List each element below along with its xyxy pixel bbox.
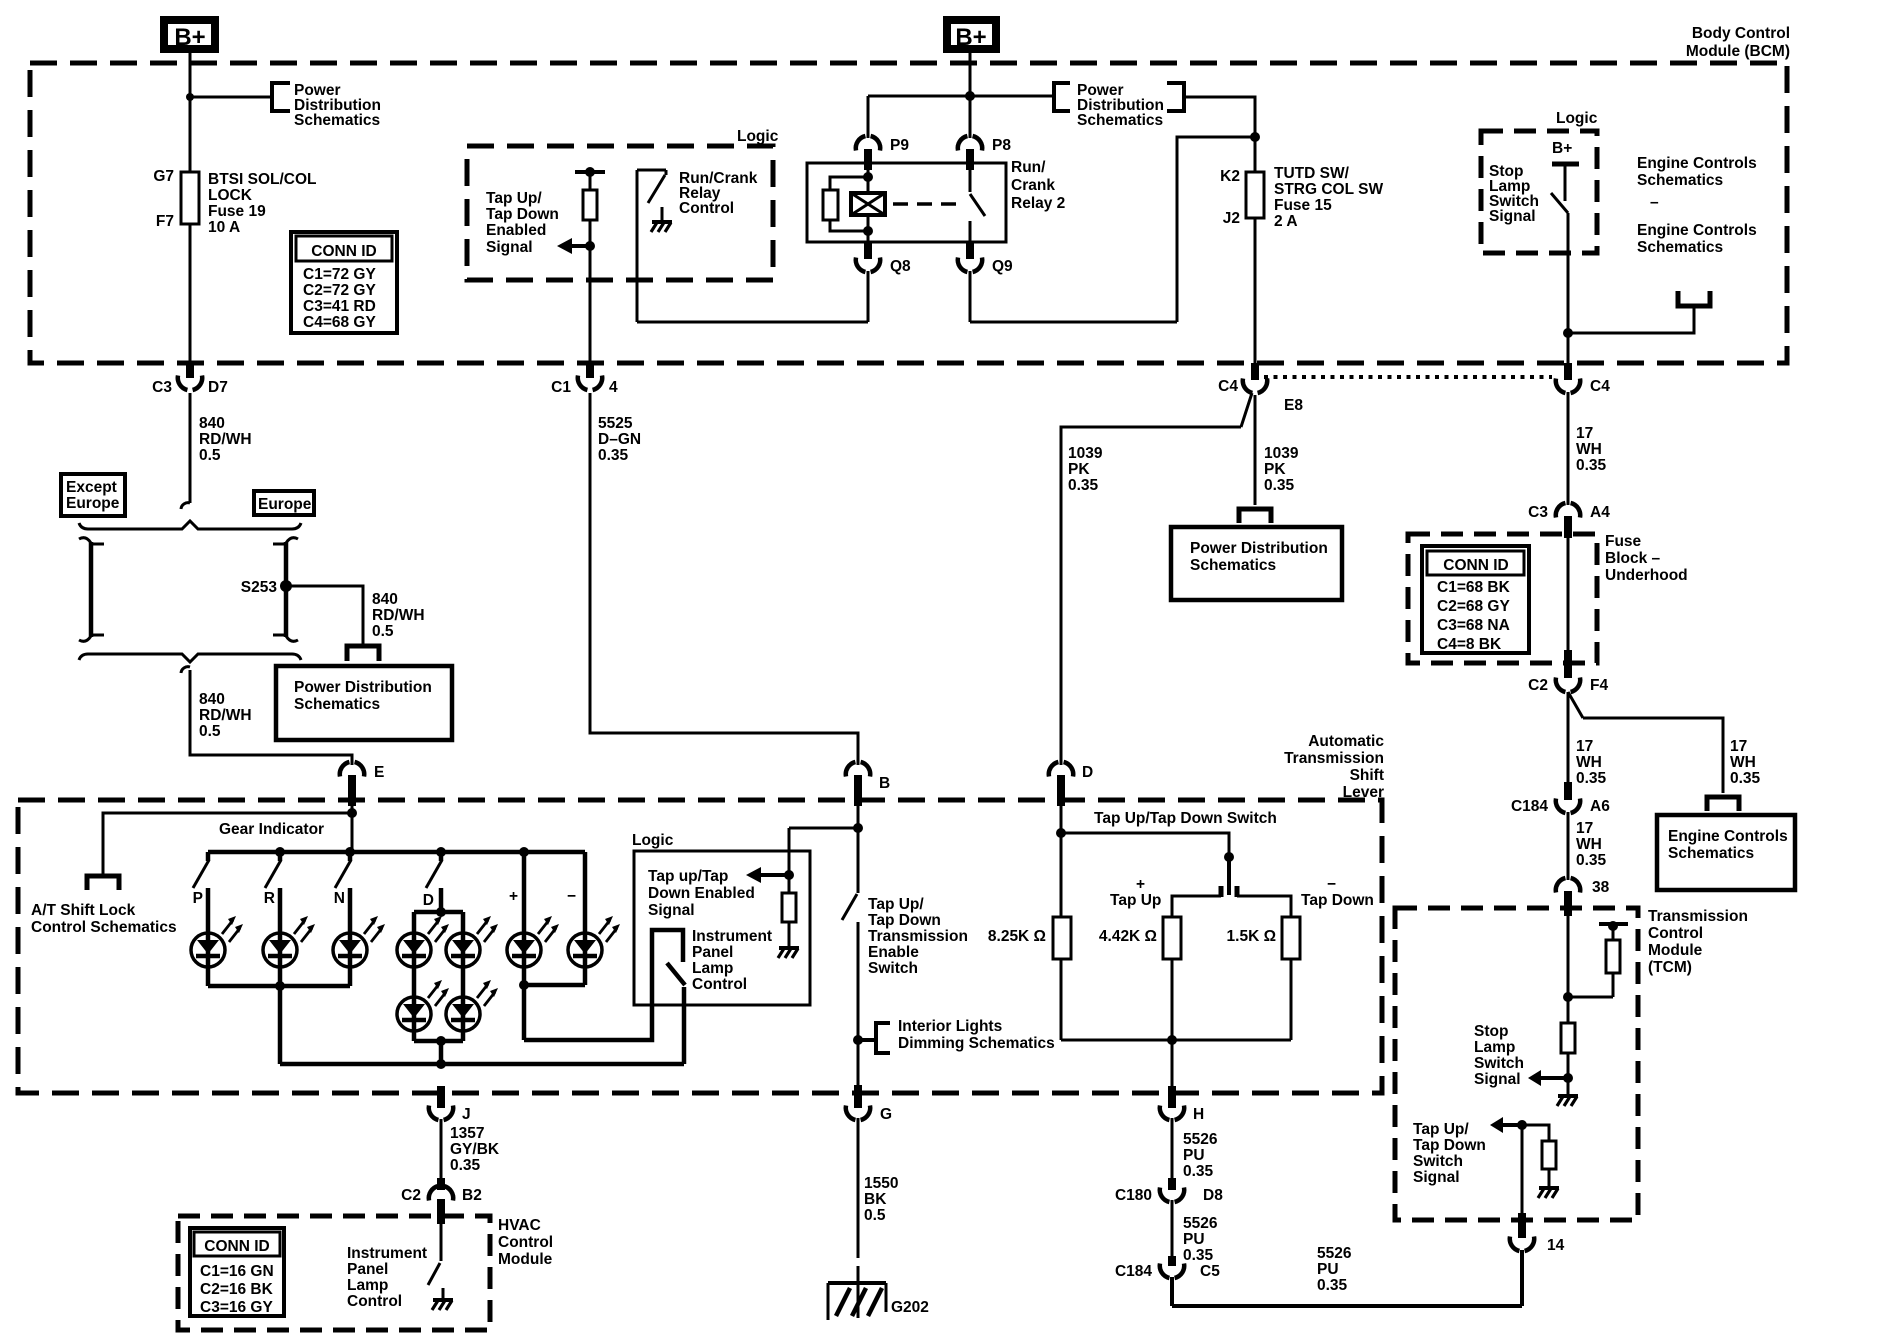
svg-text:Tap Up/: Tap Up/ (868, 896, 924, 913)
svg-text:Control: Control (692, 976, 747, 993)
svg-text:D8: D8 (1203, 1187, 1223, 1204)
svg-text:C3=68 NA: C3=68 NA (1437, 617, 1510, 634)
svg-text:Switch: Switch (1413, 1153, 1463, 1170)
svg-text:WH: WH (1730, 754, 1756, 771)
svg-text:G: G (880, 1106, 892, 1123)
svg-text:P: P (193, 890, 203, 907)
svg-text:Stop: Stop (1474, 1023, 1508, 1040)
svg-text:BTSI SOL/COL: BTSI SOL/COL (208, 171, 317, 188)
svg-text:C184: C184 (1115, 1263, 1152, 1280)
svg-text:C1=16 GN: C1=16 GN (200, 1263, 274, 1280)
svg-text:Signal: Signal (1474, 1071, 1521, 1088)
svg-text:17: 17 (1730, 738, 1747, 755)
svg-text:Automatic: Automatic (1308, 733, 1384, 750)
svg-text:Q8: Q8 (890, 258, 911, 275)
svg-text:E8: E8 (1284, 397, 1303, 414)
svg-text:Tap Up/: Tap Up/ (486, 190, 542, 207)
svg-text:C3=41 RD: C3=41 RD (303, 298, 376, 315)
svg-text:Tap Up/: Tap Up/ (1413, 1121, 1469, 1138)
svg-text:Switch: Switch (1474, 1055, 1524, 1072)
svg-text:8.25K Ω: 8.25K Ω (988, 928, 1046, 945)
svg-text:17: 17 (1576, 738, 1593, 755)
svg-text:Fuse: Fuse (1605, 533, 1642, 550)
svg-text:HVAC: HVAC (498, 1217, 541, 1234)
svg-text:WH: WH (1576, 441, 1602, 458)
svg-text:PK: PK (1068, 461, 1090, 478)
svg-text:Q9: Q9 (992, 258, 1013, 275)
svg-text:P8: P8 (992, 137, 1011, 154)
svg-text:Lamp: Lamp (1474, 1039, 1515, 1056)
svg-text:C1: C1 (551, 379, 571, 396)
svg-text:C2=16 BK: C2=16 BK (200, 1281, 274, 1298)
svg-text:Tap Down: Tap Down (1301, 892, 1374, 909)
svg-text:Gear Indicator: Gear Indicator (219, 821, 324, 838)
svg-text:Panel: Panel (347, 1261, 388, 1278)
svg-text:E: E (374, 764, 384, 781)
svg-text:Tap Up/Tap Down Switch: Tap Up/Tap Down Switch (1094, 810, 1277, 827)
svg-text:C3=16 GY: C3=16 GY (200, 1299, 273, 1316)
svg-text:0.35: 0.35 (1183, 1247, 1214, 1264)
svg-text:B+: B+ (1552, 140, 1572, 157)
svg-text:Logic: Logic (737, 128, 779, 145)
svg-text:CONN ID: CONN ID (1443, 557, 1508, 574)
svg-text:0.35: 0.35 (1264, 477, 1295, 494)
svg-text:Dimming Schematics: Dimming Schematics (898, 1035, 1055, 1052)
svg-text:Signal: Signal (1489, 208, 1536, 225)
svg-text:Europe: Europe (66, 495, 120, 512)
svg-text:R: R (264, 890, 275, 907)
svg-text:PU: PU (1183, 1147, 1205, 1164)
svg-text:Module (BCM): Module (BCM) (1686, 43, 1790, 60)
svg-text:(TCM): (TCM) (1648, 959, 1692, 976)
svg-text:1039: 1039 (1068, 445, 1103, 462)
svg-text:B2: B2 (462, 1187, 482, 1204)
svg-text:F7: F7 (156, 213, 174, 230)
svg-text:Schematics: Schematics (294, 112, 380, 129)
svg-text:17: 17 (1576, 820, 1593, 837)
svg-text:Tap Up: Tap Up (1110, 892, 1161, 909)
svg-text:Instrument: Instrument (692, 928, 772, 945)
svg-text:Block –: Block – (1605, 550, 1661, 567)
svg-text:Lever: Lever (1343, 784, 1384, 801)
svg-text:C2: C2 (1528, 677, 1548, 694)
svg-text:+: + (509, 888, 518, 905)
svg-text:5526: 5526 (1183, 1131, 1218, 1148)
svg-text:Signal: Signal (1413, 1169, 1460, 1186)
svg-text:Schematics: Schematics (1637, 172, 1723, 189)
svg-text:Schematics: Schematics (1637, 239, 1723, 256)
svg-text:J2: J2 (1223, 210, 1240, 227)
svg-text:PU: PU (1183, 1231, 1205, 1248)
svg-text:0.35: 0.35 (1576, 457, 1607, 474)
svg-text:G7: G7 (153, 168, 174, 185)
svg-text:RD/WH: RD/WH (372, 607, 425, 624)
svg-text:0.35: 0.35 (1068, 477, 1099, 494)
svg-text:Schematics: Schematics (1190, 557, 1276, 574)
svg-text:S253: S253 (241, 579, 278, 596)
svg-text:Schematics: Schematics (294, 696, 380, 713)
svg-text:Control: Control (1648, 925, 1703, 942)
svg-text:+: + (1136, 876, 1145, 893)
svg-text:A6: A6 (1590, 798, 1610, 815)
svg-text:Fuse 15: Fuse 15 (1274, 197, 1332, 214)
svg-text:C3: C3 (152, 379, 172, 396)
svg-text:−: − (567, 888, 576, 905)
svg-text:RD/WH: RD/WH (199, 707, 252, 724)
svg-text:CONN ID: CONN ID (311, 243, 376, 260)
svg-text:Down Enabled: Down Enabled (648, 885, 755, 902)
svg-text:LOCK: LOCK (208, 187, 253, 204)
svg-text:Control Schematics: Control Schematics (31, 919, 177, 936)
svg-text:5525: 5525 (598, 415, 633, 432)
svg-text:F4: F4 (1590, 677, 1608, 694)
svg-text:B: B (879, 775, 890, 792)
svg-text:1039: 1039 (1264, 445, 1299, 462)
svg-text:0.35: 0.35 (1183, 1163, 1214, 1180)
svg-text:0.35: 0.35 (598, 447, 629, 464)
svg-text:Control: Control (679, 200, 734, 217)
svg-text:0.5: 0.5 (199, 723, 221, 740)
svg-text:C3: C3 (1528, 504, 1548, 521)
svg-text:K2: K2 (1220, 168, 1240, 185)
svg-text:BK: BK (864, 1191, 887, 1208)
svg-text:Power Distribution: Power Distribution (1190, 540, 1328, 557)
svg-text:Instrument: Instrument (347, 1245, 427, 1262)
svg-text:Enabled: Enabled (486, 222, 546, 239)
svg-text:Engine Controls: Engine Controls (1668, 828, 1788, 845)
svg-text:Signal: Signal (486, 239, 533, 256)
svg-text:N: N (334, 890, 345, 907)
svg-text:5526: 5526 (1183, 1215, 1218, 1232)
svg-text:D7: D7 (208, 379, 228, 396)
svg-text:H: H (1193, 1106, 1204, 1123)
svg-text:C4: C4 (1218, 378, 1238, 395)
svg-text:Control: Control (498, 1234, 553, 1251)
svg-text:840: 840 (199, 691, 225, 708)
svg-text:Interior Lights: Interior Lights (898, 1018, 1002, 1035)
svg-text:Panel: Panel (692, 944, 733, 961)
svg-text:WH: WH (1576, 836, 1602, 853)
svg-text:1550: 1550 (864, 1175, 898, 1192)
svg-text:4.42K Ω: 4.42K Ω (1099, 928, 1157, 945)
svg-text:C180: C180 (1115, 1187, 1152, 1204)
svg-text:A4: A4 (1590, 504, 1610, 521)
svg-text:J: J (462, 1106, 471, 1123)
svg-text:Power Distribution: Power Distribution (294, 679, 432, 696)
svg-text:B+: B+ (174, 24, 205, 51)
svg-text:A/T Shift Lock: A/T Shift Lock (31, 902, 136, 919)
svg-text:Tap up/Tap: Tap up/Tap (648, 868, 728, 885)
svg-text:0.5: 0.5 (199, 447, 221, 464)
svg-text:C2: C2 (401, 1187, 421, 1204)
svg-text:GY/BK: GY/BK (450, 1141, 500, 1158)
svg-text:2 A: 2 A (1274, 213, 1298, 230)
svg-text:Control: Control (347, 1293, 402, 1310)
svg-text:Schematics: Schematics (1077, 112, 1163, 129)
svg-text:Fuse 19: Fuse 19 (208, 203, 266, 220)
svg-text:Engine Controls: Engine Controls (1637, 222, 1757, 239)
svg-text:Module: Module (498, 1251, 553, 1268)
svg-text:TUTD SW/: TUTD SW/ (1274, 165, 1350, 182)
svg-text:G202: G202 (891, 1299, 929, 1316)
svg-text:RD/WH: RD/WH (199, 431, 252, 448)
svg-text:C184: C184 (1511, 798, 1548, 815)
svg-text:5526: 5526 (1317, 1245, 1352, 1262)
svg-text:Crank: Crank (1011, 177, 1055, 194)
svg-text:10 A: 10 A (208, 219, 240, 236)
svg-text:1.5K Ω: 1.5K Ω (1227, 928, 1276, 945)
svg-text:C5: C5 (1200, 1263, 1220, 1280)
svg-text:Shift: Shift (1350, 767, 1384, 784)
svg-text:Transmission: Transmission (1648, 908, 1748, 925)
svg-text:0.35: 0.35 (450, 1157, 481, 1174)
svg-text:C2=68 GY: C2=68 GY (1437, 598, 1510, 615)
svg-text:0.35: 0.35 (1730, 770, 1761, 787)
svg-text:Except: Except (66, 479, 117, 496)
svg-text:1357: 1357 (450, 1125, 484, 1142)
svg-text:D: D (1082, 764, 1093, 781)
svg-text:Europe: Europe (258, 496, 312, 513)
svg-text:C4=8 BK: C4=8 BK (1437, 636, 1502, 653)
svg-text:0.5: 0.5 (864, 1207, 886, 1224)
svg-text:Tap Down: Tap Down (868, 912, 941, 929)
svg-text:Transmission: Transmission (1284, 750, 1384, 767)
svg-text:0.35: 0.35 (1317, 1277, 1348, 1294)
svg-text:Lamp: Lamp (347, 1277, 388, 1294)
svg-text:C1=72 GY: C1=72 GY (303, 266, 376, 283)
svg-text:0.5: 0.5 (372, 623, 394, 640)
svg-text:Relay 2: Relay 2 (1011, 195, 1065, 212)
svg-text:840: 840 (199, 415, 225, 432)
svg-text:38: 38 (1592, 879, 1610, 896)
svg-text:Switch: Switch (868, 960, 918, 977)
svg-text:0.35: 0.35 (1576, 770, 1607, 787)
svg-text:Logic: Logic (1556, 110, 1598, 127)
svg-text:Engine Controls: Engine Controls (1637, 155, 1757, 172)
svg-text:0.35: 0.35 (1576, 852, 1607, 869)
svg-text:PU: PU (1317, 1261, 1339, 1278)
svg-text:D–GN: D–GN (598, 431, 641, 448)
svg-text:Tap Down: Tap Down (1413, 1137, 1486, 1154)
svg-text:Logic: Logic (632, 832, 674, 849)
svg-text:PK: PK (1264, 461, 1286, 478)
svg-text:C4=68 GY: C4=68 GY (303, 314, 376, 331)
svg-text:Body Control: Body Control (1692, 25, 1790, 42)
svg-text:Transmission: Transmission (868, 928, 968, 945)
svg-text:Signal: Signal (648, 902, 695, 919)
svg-text:Schematics: Schematics (1668, 845, 1754, 862)
svg-text:STRG COL SW: STRG COL SW (1274, 181, 1383, 198)
svg-text:D: D (423, 892, 434, 909)
svg-text:C1=68 BK: C1=68 BK (1437, 579, 1511, 596)
svg-text:Underhood: Underhood (1605, 567, 1688, 584)
svg-text:Tap Down: Tap Down (486, 206, 559, 223)
svg-text:Enable: Enable (868, 944, 919, 961)
svg-text:CONN ID: CONN ID (204, 1238, 269, 1255)
svg-text:C4: C4 (1590, 378, 1610, 395)
svg-text:–: – (1650, 194, 1659, 211)
svg-text:Module: Module (1648, 942, 1703, 959)
svg-text:Lamp: Lamp (692, 960, 733, 977)
svg-text:4: 4 (609, 379, 618, 396)
svg-text:14: 14 (1547, 1237, 1565, 1254)
svg-text:B+: B+ (955, 24, 986, 51)
svg-text:−: − (1327, 876, 1336, 893)
svg-text:Run/: Run/ (1011, 159, 1046, 176)
svg-text:17: 17 (1576, 425, 1593, 442)
svg-text:WH: WH (1576, 754, 1602, 771)
svg-text:P9: P9 (890, 137, 909, 154)
svg-text:840: 840 (372, 591, 398, 608)
svg-text:C2=72 GY: C2=72 GY (303, 282, 376, 299)
